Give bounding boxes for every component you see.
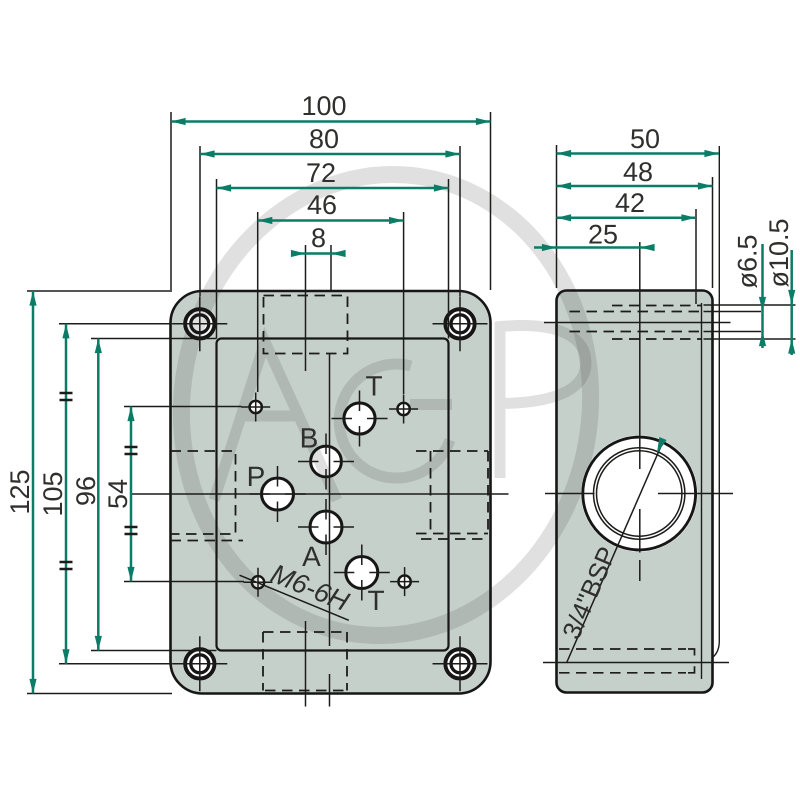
svg-text:ø10.5: ø10.5 (764, 218, 794, 287)
svg-text:8: 8 (311, 223, 326, 253)
dim 100 (171, 120, 491, 123)
corner hole crosshairs (172, 296, 487, 691)
hidden cavity dashed right (416, 451, 488, 539)
hidden hole lines top (570, 306, 702, 340)
BSP port outer circle (583, 437, 696, 550)
BSP leader line (567, 441, 664, 664)
watermark AGP logo (152, 148, 620, 662)
dim 8 outside arrows (292, 252, 306, 255)
dim 25 outside arrows (534, 246, 557, 249)
dim 80 (200, 153, 460, 156)
M6 hole top-left (250, 401, 262, 413)
M6-6H leader line (240, 575, 349, 620)
svg-text:P: P (247, 461, 266, 492)
bottom hole centerline (543, 662, 729, 664)
dim 50 (557, 152, 720, 155)
hidden cavity dashed top (264, 296, 348, 354)
watermark letter P (496, 322, 586, 478)
corner hole bottom-left (185, 649, 214, 678)
svg-text:25: 25 (588, 220, 618, 250)
equality marks (60, 393, 138, 569)
white port fills front view (183, 307, 698, 681)
dim 46 (258, 219, 404, 222)
port P (262, 478, 294, 510)
dim dia 6.5 (761, 244, 764, 312)
port T top (344, 403, 375, 434)
vertical centerline plate (329, 354, 331, 707)
svg-text:46: 46 (307, 190, 337, 220)
top hole centerline (544, 322, 731, 324)
BSP crosshair (545, 242, 733, 581)
dim 42 (557, 217, 697, 220)
plate outline (171, 291, 491, 694)
watermark ring (152, 148, 620, 662)
extension lines left (27, 291, 244, 694)
svg-text:50: 50 (630, 124, 660, 154)
green dimension lines front (33, 122, 491, 694)
horizontal centerline mid plate (132, 493, 509, 495)
dim 125 (32, 291, 35, 694)
port T bottom (346, 557, 378, 589)
port A (310, 511, 342, 543)
corner hole top-right (445, 309, 474, 338)
svg-text:125: 125 (5, 469, 35, 514)
dimension texts front (5, 91, 347, 517)
svg-text:B: B (300, 423, 319, 454)
right lip line (713, 146, 720, 658)
svg-text:100: 100 (301, 91, 346, 121)
side view body fill (557, 291, 713, 693)
svg-text:T: T (365, 371, 382, 402)
M6 hole bottom-left (252, 576, 264, 588)
inner rect (valve face) (217, 339, 449, 651)
body outline (557, 291, 713, 693)
dim 25 line (557, 246, 641, 249)
vertical cavity centerline (305, 245, 307, 707)
svg-text:72: 72 (306, 158, 336, 188)
dim 8 line (306, 252, 332, 255)
watermark letter A (214, 342, 337, 500)
dim dia 10.5 (790, 250, 793, 305)
green dimension lines side (534, 154, 792, 356)
dim 96 (97, 339, 100, 651)
extension lines top (171, 112, 491, 394)
svg-text:96: 96 (71, 476, 101, 506)
right edge tangent line (701, 303, 703, 679)
hole extension lines right (704, 305, 796, 339)
port B (311, 446, 342, 477)
side extension lines (557, 145, 713, 304)
corner hole bottom-right (445, 649, 474, 678)
svg-text:80: 80 (309, 124, 339, 154)
svg-text:A: A (302, 541, 321, 572)
dim 72 (217, 187, 449, 190)
svg-text:42: 42 (615, 188, 645, 218)
watermark letter G (339, 364, 452, 478)
BSP leader arrowhead (657, 437, 667, 454)
M6 hole bottom-right (398, 575, 410, 587)
plate front view fill (171, 291, 491, 694)
svg-text:T: T (367, 585, 384, 616)
corner hole top-left (185, 309, 214, 338)
svg-text:105: 105 (38, 471, 68, 516)
svg-text:ø6.5: ø6.5 (733, 234, 763, 288)
hidden cavity dashed bottom (263, 632, 347, 691)
BSP thread circles (594, 448, 685, 539)
M6 hole top-right (397, 403, 409, 415)
svg-text:48: 48 (623, 157, 653, 187)
hidden cavity dashed left (171, 451, 244, 541)
dim 48 (557, 185, 713, 188)
hidden hole lines bottom (559, 649, 686, 673)
hidden corner marks bottom (688, 649, 695, 673)
dim 105 (65, 324, 68, 664)
svg-text:54: 54 (103, 479, 133, 509)
port labels (247, 371, 385, 617)
dim 54 (130, 407, 133, 582)
port crosshairs (250, 391, 390, 601)
M6 hole crosshairs (241, 393, 419, 597)
dimension texts side (588, 124, 794, 289)
